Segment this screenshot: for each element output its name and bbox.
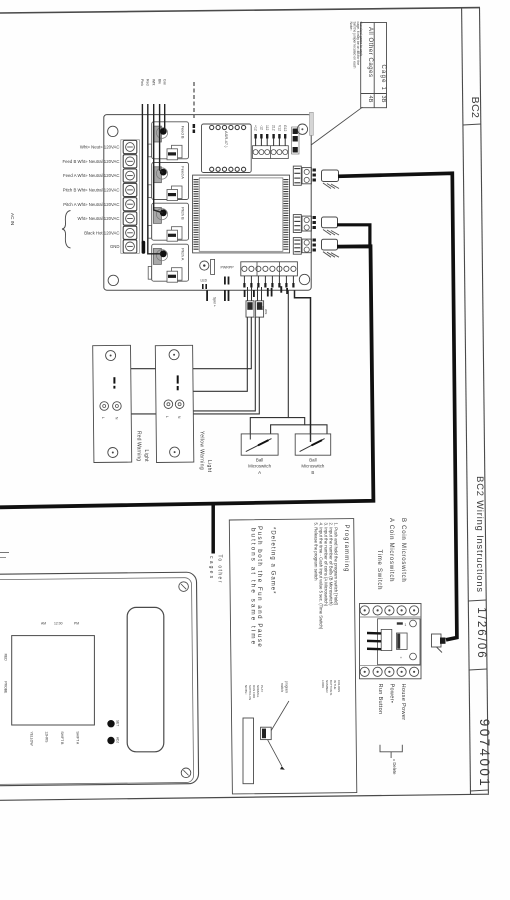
resistor by buzzer xyxy=(211,259,215,274)
svg-text:Time Switch: Time Switch xyxy=(376,550,382,591)
yellow light polarity marks xyxy=(177,375,179,383)
svg-text:-12: -12 xyxy=(259,125,263,130)
time switch small circles xyxy=(410,620,417,627)
svg-text:LOOK: LOOK xyxy=(321,680,325,688)
svg-text:B Coin Microswitch: B Coin Microswitch xyxy=(400,518,406,583)
svg-text:cages: cages xyxy=(208,556,214,580)
wire board to microswitch A left xyxy=(250,290,288,439)
title strip left rule xyxy=(462,8,471,795)
delete bracket xyxy=(380,745,402,752)
IC U1 bottom pins xyxy=(210,167,246,171)
microswitch B pin xyxy=(310,434,312,442)
svg-text:G12: G12 xyxy=(283,125,287,132)
jumper table column divider xyxy=(373,23,375,108)
svg-text:Pitch B Wht» Neutral 120VAC: Pitch B Wht» Neutral 120VAC xyxy=(63,188,120,193)
svg-text:COLORS: COLORS xyxy=(337,680,341,692)
sheet bottom border xyxy=(0,794,489,800)
display unit inner bezel xyxy=(0,578,194,785)
notes text programming xyxy=(250,523,349,649)
svg-text:Red Warning: Red Warning xyxy=(135,431,141,461)
right edge socket CN3 xyxy=(293,166,311,185)
display unit outer case xyxy=(0,572,199,786)
connector strip CN2 base xyxy=(253,146,289,159)
terminal block TB1 outline xyxy=(121,140,140,254)
svg-text:PM: PM xyxy=(74,622,79,626)
svg-text:Light: Light xyxy=(206,460,212,473)
input wire 1 xyxy=(141,104,143,244)
terminal TB1-3 xyxy=(123,169,137,182)
terminal TB1-2 xyxy=(123,155,137,168)
yellow light terminal R xyxy=(175,400,184,409)
yellow light terminal L xyxy=(164,400,173,409)
plug P2 xyxy=(322,217,340,235)
terminal TB1-7 xyxy=(123,226,137,239)
svg-text:AM: AM xyxy=(41,622,46,626)
leader line from table to jumper J1 xyxy=(309,107,362,146)
terminal TB1-8 xyxy=(123,240,137,253)
svg-text:PLAY: PLAY xyxy=(260,685,264,692)
ball microswitch B label xyxy=(301,458,324,476)
svg-text:*Deleting a Game*: *Deleting a Game* xyxy=(270,527,276,595)
program switch mini diagram: board edge xyxy=(243,718,254,784)
svg-text:Blk: Blk xyxy=(157,79,161,84)
svg-text:NORMAL: NORMAL xyxy=(256,685,260,698)
svg-text:Ball: Ball xyxy=(309,458,316,463)
svg-text:BC2 Wiring Instructions: BC2 Wiring Instructions xyxy=(475,476,485,593)
bottom connector strip CN6 xyxy=(241,262,298,288)
case screw top-right xyxy=(179,582,189,592)
microswitch B lever xyxy=(300,439,325,452)
relay module K2 (Feed A) xyxy=(148,163,188,201)
svg-text:Wht» Neut» 120VAC: Wht» Neut» 120VAC xyxy=(80,145,120,150)
board edge pin strip 1 xyxy=(313,169,316,182)
thick wire W2 xyxy=(337,225,370,246)
relay module K1 (Feed B) xyxy=(148,122,188,160)
CN2 terminals and pins xyxy=(253,125,288,155)
svg-text:Wht: Wht xyxy=(264,309,268,315)
lower pin stubs below CN6 xyxy=(244,288,288,297)
small pin pair xyxy=(224,277,226,285)
svg-text:12:00: 12:00 xyxy=(54,622,63,626)
control board PCB outline xyxy=(104,115,311,291)
microswitch A lever xyxy=(246,439,272,452)
svg-text:Feed B Wht» Neutral 120VAC: Feed B Wht» Neutral 120VAC xyxy=(62,159,119,164)
display top labels xyxy=(41,622,79,626)
time switch bottom terminals xyxy=(360,665,422,676)
svg-text:Pitch A Wht» Neutral 120VAC: Pitch A Wht» Neutral 120VAC xyxy=(63,202,119,207)
svg-text:+: + xyxy=(400,656,402,660)
svg-text:standard game to work: standard game to work xyxy=(359,22,363,57)
svg-text:V12: V12 xyxy=(277,125,281,131)
svg-text:212: 212 xyxy=(272,125,276,131)
yellow warning light box xyxy=(155,345,194,462)
svg-text:Pitch A: Pitch A xyxy=(181,248,186,261)
svg-text:Red: Red xyxy=(146,79,150,86)
input wire 3 xyxy=(154,104,163,213)
red light terminal R xyxy=(113,402,122,411)
leader arrowhead at jumper J1 xyxy=(303,144,311,151)
coin slot xyxy=(127,607,164,751)
svg-text:Feed A: Feed A xyxy=(181,166,186,179)
svg-text:PROBE: PROBE xyxy=(4,681,8,694)
left edge wire stubs xyxy=(0,552,9,554)
connector bar at board top right edge xyxy=(310,112,314,135)
time switch inner module xyxy=(378,619,420,665)
terminal TB1-4 xyxy=(123,183,137,196)
time switch tiny marks xyxy=(397,622,403,624)
svg-text:ASR-47.): ASR-47.) xyxy=(224,131,229,148)
svg-text:BUTTON IS: BUTTON IS xyxy=(329,680,333,695)
svg-text:SWITCH IN: SWITCH IN xyxy=(248,685,252,700)
AC IN brace xyxy=(62,211,71,249)
note text beside table xyxy=(349,22,363,69)
svg-text:Ball: Ball xyxy=(256,458,263,463)
time switch connector block xyxy=(381,629,392,650)
IC U1 body xyxy=(202,124,252,173)
terminal TB1-1 xyxy=(123,140,137,153)
svg-text:Black Hot 120VAC: Black Hot 120VAC xyxy=(84,230,119,235)
fuse ticks xyxy=(202,284,204,289)
svg-text:= Delete: = Delete xyxy=(392,759,397,775)
svg-text:Run Button: Run Button xyxy=(377,684,383,715)
svg-text:12HRS: 12HRS xyxy=(45,731,49,743)
red light terminal L xyxy=(100,402,109,411)
title strip divider below date cell xyxy=(469,669,487,670)
wire bundle to yellow light R xyxy=(180,317,256,411)
case screw bottom-right xyxy=(181,768,191,778)
title strip divider bottom xyxy=(470,790,488,791)
module U2 inner xyxy=(199,178,283,251)
plug P1 xyxy=(322,170,340,189)
ball microswitch A label xyxy=(248,458,271,476)
input wire junction blob xyxy=(142,241,146,254)
board bottom pin stub xyxy=(280,286,282,293)
module U2 right pin hatches xyxy=(283,179,288,251)
svg-text:Wht» Neutral 120VAC: Wht» Neutral 120VAC xyxy=(78,216,120,221)
svg-text:Cage 1: Cage 1 xyxy=(380,65,386,92)
svg-text:112: 112 xyxy=(265,125,269,131)
svg-text:ADJ: ADJ xyxy=(116,737,120,743)
svg-text:buttons at the same time: buttons at the same time xyxy=(250,528,257,646)
svg-text:YELLOW: YELLOW xyxy=(29,731,33,746)
time switch top terminals xyxy=(360,606,422,617)
svg-text:1/26/06: 1/26/06 xyxy=(475,607,487,659)
svg-text:NOTE:: NOTE: xyxy=(244,685,248,695)
svg-text:NUMBER: NUMBER xyxy=(325,680,329,693)
svg-text:4B: 4B xyxy=(367,96,373,103)
svg-text:SHIFT A: SHIFT A xyxy=(76,731,80,744)
svg-text:Feed B: Feed B xyxy=(181,126,186,139)
jumper J1 xyxy=(292,127,299,154)
mounting hole bottom-left xyxy=(108,275,118,285)
board top-left tick marks xyxy=(193,124,196,128)
svg-text:PWRPP: PWRPP xyxy=(221,266,235,270)
input wire 2 xyxy=(148,104,162,254)
terminal TB1-5 xyxy=(123,198,137,211)
wire jog microswitch common xyxy=(271,418,305,443)
bundle wires from CN6 to plugs xyxy=(247,287,249,301)
svg-text:Note:: Note: xyxy=(349,22,353,31)
IC U1 top pins xyxy=(210,125,246,129)
svg-text:Pink: Pink xyxy=(140,79,144,86)
dash-dot line above board xyxy=(193,82,195,118)
svg-text:Pitch B: Pitch B xyxy=(181,207,186,220)
red light polarity marks xyxy=(113,377,115,383)
title strip divider under BC2 cell xyxy=(463,124,481,125)
svg-text:GND: GND xyxy=(110,244,120,249)
ball microswitch A box xyxy=(241,434,278,455)
svg-text:Yellow Warning: Yellow Warning xyxy=(198,431,204,470)
display window xyxy=(12,636,95,725)
svg-text:Spkr +: Spkr + xyxy=(213,297,217,307)
svg-text:IN THE: IN THE xyxy=(333,680,337,689)
svg-text:House Power: House Power xyxy=(400,684,406,721)
relay module K4 (Pitch A) xyxy=(148,244,188,282)
plug P3 xyxy=(322,239,340,257)
svg-text:BC2: BC2 xyxy=(469,97,481,119)
svg-text:9074001: 9074001 xyxy=(477,719,492,788)
svg-text:A Coin Microswitch: A Coin Microswitch xyxy=(388,518,394,582)
buzzer circle xyxy=(200,261,209,270)
svg-text:program: program xyxy=(285,681,289,693)
svg-text:Programming: Programming xyxy=(343,525,349,573)
svg-text:LED: LED xyxy=(201,279,208,283)
program switch component xyxy=(261,727,272,739)
wire bundle to red light L xyxy=(104,317,251,401)
board edge pin strip 2 xyxy=(313,216,316,229)
wire labels above time switch xyxy=(376,518,406,590)
right edge socket CN5 xyxy=(293,238,311,255)
module U2 left pin hatches xyxy=(194,179,199,251)
svg-text:SHIFT B: SHIFT B xyxy=(60,731,64,745)
svg-text:Microswitch: Microswitch xyxy=(301,464,324,469)
svg-text:RUN FOR: RUN FOR xyxy=(252,685,256,698)
svg-text:Feed A Wht» Neutral 120VAC: Feed A Wht» Neutral 120VAC xyxy=(63,173,120,178)
mounting hole bottom-right xyxy=(299,274,309,284)
input wire 4 xyxy=(160,104,163,173)
svg-text:A: A xyxy=(258,470,261,475)
title strip right rule xyxy=(480,8,489,794)
program switch leader down xyxy=(268,740,282,767)
svg-text:switch: switch xyxy=(280,683,284,692)
programming notes box xyxy=(229,519,357,794)
board edge pin strip 3 xyxy=(313,239,316,252)
svg-text:Set the jumper located on each: Set the jumper located on each xyxy=(352,22,356,69)
pin stub at left xyxy=(206,291,208,302)
mounting hole top-right xyxy=(297,124,307,134)
svg-text:L: L xyxy=(165,416,169,418)
svg-text:L: L xyxy=(101,417,105,419)
connector wedge pins xyxy=(367,632,381,635)
jumper table value row divider xyxy=(361,93,387,95)
thick wire W1 from P1 to time switch connector xyxy=(338,173,457,640)
svg-text:AC IN: AC IN xyxy=(10,213,15,225)
module U2 outer xyxy=(193,175,290,253)
svg-text:Wht: Wht xyxy=(152,79,156,85)
svg-text:Blk: Blk xyxy=(261,306,265,311)
svg-text:All Other Cages: All Other Cages xyxy=(367,27,373,78)
svg-text:SET: SET xyxy=(116,720,120,726)
sheet top border xyxy=(0,8,480,13)
terminal TB1-6 xyxy=(123,212,137,225)
bundle plug upper xyxy=(246,301,254,317)
wire to microswitch B right xyxy=(305,425,327,441)
input wire 5 xyxy=(164,104,166,131)
program switch leader up xyxy=(271,701,289,731)
bundle plug lower xyxy=(256,301,264,317)
relay square inside time switch xyxy=(397,633,408,649)
button 1 xyxy=(107,720,114,727)
right edge socket CN4 xyxy=(293,215,311,233)
svg-text:5. Release the program switch: 5. Release the program switch xyxy=(314,523,319,582)
time switch top terminal row xyxy=(360,606,422,617)
svg-text:Power•: Power• xyxy=(389,684,395,704)
button 2 xyxy=(107,737,114,744)
svg-text:3B: 3B xyxy=(380,96,386,103)
svg-text:B: B xyxy=(311,470,314,475)
svg-text:Light: Light xyxy=(143,450,149,463)
svg-text:1: 1 xyxy=(405,623,407,627)
microswitch A pin xyxy=(249,434,251,440)
input wire labels xyxy=(140,79,166,86)
wire bundle to yellow light L xyxy=(168,317,247,401)
jumper table outline xyxy=(361,23,387,108)
svg-text:Microswitch: Microswitch xyxy=(248,464,271,469)
mounting hole top-left xyxy=(108,126,118,136)
title strip divider above date cell xyxy=(468,600,486,601)
program switch note tiny text xyxy=(244,685,264,700)
time switch bottom terminal row xyxy=(360,665,422,676)
time switch outer body xyxy=(360,604,422,679)
wire board to microswitch B left xyxy=(295,290,311,442)
display bottom labels xyxy=(29,731,79,746)
thick wire drop to other cages xyxy=(211,505,215,554)
svg-text:RED: RED xyxy=(4,654,8,662)
relay module K3 (Pitch B) xyxy=(148,203,188,241)
svg-text:Grn: Grn xyxy=(163,79,167,85)
svg-text:+12: +12 xyxy=(254,125,258,131)
svg-text:To other: To other xyxy=(216,555,222,584)
ball microswitch B box xyxy=(295,434,331,455)
wire connector at time switch xyxy=(432,634,446,653)
red warning light box xyxy=(93,345,132,462)
notes box part number text xyxy=(321,680,341,695)
wire bundle to red light R xyxy=(117,317,259,414)
thick wire W3 to lights feed xyxy=(0,246,373,507)
